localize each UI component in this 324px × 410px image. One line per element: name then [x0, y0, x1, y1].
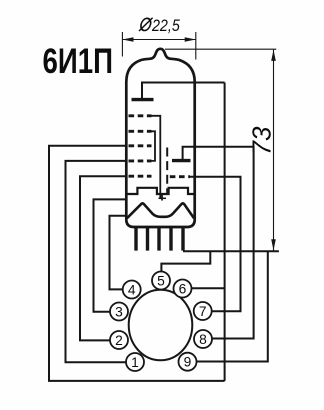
tube pin 5 (base lead)	[181, 228, 184, 251]
tube pin 1 (base lead)	[134, 228, 137, 251]
wire: press-left to pin 4	[110, 216, 127, 290]
pin circle 6	[174, 280, 192, 298]
pin circle 4	[123, 281, 141, 299]
getter plate	[132, 98, 154, 101]
extension line left	[121, 32, 123, 57]
arrowhead right of ⌀22.5	[185, 37, 196, 42]
pin circle 3	[110, 303, 128, 321]
tube envelope outline	[126, 49, 194, 227]
heptode grid row 2 (dashed)	[129, 130, 152, 133]
triode grid support (dashed vertical)	[166, 148, 168, 194]
svg-text:2: 2	[115, 333, 123, 348]
svg-text:8: 8	[199, 332, 207, 347]
arrowhead down (73 bottom)	[271, 239, 276, 250]
wire: triode grid row to pin 7	[190, 177, 241, 312]
pin circle 1	[126, 353, 144, 371]
glass press (pinch)	[127, 203, 194, 218]
triode anode lead	[183, 147, 254, 159]
tube pin 3 (base lead)	[157, 228, 160, 251]
grid row 1 connector to center support	[148, 116, 161, 199]
svg-text:4: 4	[128, 283, 136, 298]
pin circle 9	[179, 353, 197, 371]
triode anode bar	[172, 159, 191, 162]
wire: lower-left electrode to pin 3	[94, 199, 127, 311]
grid row 2 connector down to row 4	[148, 131, 156, 161]
dimension label ⌀22,5	[139, 17, 180, 35]
tube pin 4 (base lead)	[169, 228, 172, 251]
heptode grid row 5 (dashed)	[129, 175, 152, 178]
mica spacer (stepped bar)	[127, 188, 194, 194]
wire: grid row5 to pin 2	[80, 176, 127, 340]
svg-text:1: 1	[131, 355, 139, 370]
svg-text:6: 6	[179, 282, 187, 297]
extension line right	[195, 32, 197, 60]
getter lead	[142, 83, 225, 99]
pin circle 2	[110, 331, 128, 349]
svg-text:3: 3	[115, 305, 123, 320]
wire: triode anode to pin 8	[212, 147, 254, 339]
wire: heater run down to pin 9	[197, 251, 268, 361]
pin circle 5	[152, 272, 170, 290]
tube label 6И1П	[43, 41, 113, 81]
heptode grid row 1 (dashed)	[129, 114, 152, 117]
wire: getter branch to pin 6	[192, 287, 225, 289]
pin circle 8	[194, 330, 212, 348]
heptode grid row 4 (dashed)	[129, 159, 152, 162]
center support tick	[161, 194, 163, 201]
wire: heater branch to pin 5	[161, 251, 210, 272]
triode grid row (dashed)	[170, 175, 190, 178]
dimension 73: vertical line	[273, 49, 275, 251]
tube pin 2 (base lead)	[146, 228, 149, 251]
svg-text:6И1П: 6И1П	[43, 41, 113, 81]
heptode grid row 3 (dashed)	[129, 144, 152, 147]
svg-text:9: 9	[184, 355, 192, 370]
wire: getter lead down right side to bottom rail	[224, 83, 226, 381]
dimension 73: top reference line	[165, 48, 276, 50]
dimension line ⌀22.5	[122, 32, 195, 60]
wire: base lead 5 heater run to dimension edge	[183, 250, 279, 252]
svg-text:5: 5	[157, 274, 165, 289]
svg-text:7: 7	[199, 304, 207, 319]
arrowhead left of ⌀22.5	[122, 37, 133, 42]
wire: grid row3 to bottom rail (left outermost)	[49, 146, 225, 381]
wire: grid row4 to pin 1	[66, 161, 127, 362]
pin circle 7	[194, 302, 212, 320]
socket base (bottom view ellipse)	[129, 290, 193, 361]
arrowhead up (73 top)	[271, 50, 276, 61]
svg-text:73: 73	[247, 126, 277, 155]
center support cross tick	[159, 197, 167, 199]
svg-text:22,5: 22,5	[151, 17, 180, 35]
